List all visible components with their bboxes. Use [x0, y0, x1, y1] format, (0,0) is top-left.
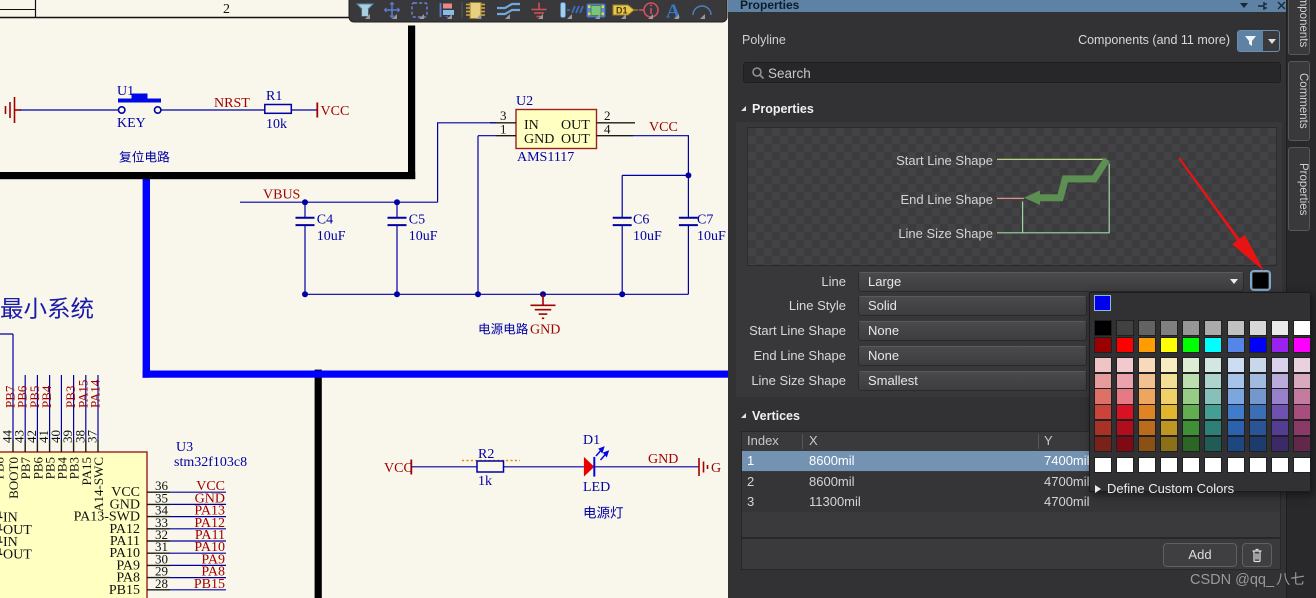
- svg-text:KEY: KEY: [117, 116, 146, 131]
- svg-text:4: 4: [604, 122, 611, 137]
- svg-text:VCC: VCC: [321, 104, 350, 119]
- svg-text:1k: 1k: [478, 474, 492, 489]
- svg-text:stm32f103c8: stm32f103c8: [174, 455, 247, 470]
- svg-text:1: 1: [500, 122, 507, 137]
- svg-text:37: 37: [85, 430, 100, 444]
- svg-text:D1: D1: [583, 433, 600, 448]
- svg-text:10uF: 10uF: [633, 229, 662, 244]
- svg-text:A: A: [666, 1, 681, 23]
- svg-text:GND: GND: [530, 323, 560, 338]
- svg-text:OUT: OUT: [561, 118, 590, 133]
- svg-text:PA14: PA14: [88, 379, 103, 408]
- svg-text:D1: D1: [616, 6, 628, 16]
- svg-text:IN: IN: [524, 118, 539, 133]
- svg-text:LED: LED: [583, 480, 610, 495]
- svg-text:C5: C5: [409, 213, 425, 228]
- svg-text:10uF: 10uF: [317, 229, 346, 244]
- svg-text:28: 28: [155, 576, 168, 591]
- svg-text:PB8: PB8: [0, 457, 7, 479]
- svg-text:C7: C7: [697, 213, 713, 228]
- svg-text:PB15: PB15: [109, 583, 140, 598]
- svg-text:OUT: OUT: [3, 547, 32, 562]
- svg-text:10uF: 10uF: [409, 229, 438, 244]
- svg-text:G: G: [711, 461, 721, 476]
- svg-text:GND: GND: [648, 452, 678, 467]
- svg-text:U1: U1: [117, 84, 134, 99]
- svg-text:PB15: PB15: [194, 577, 225, 592]
- svg-text:U2: U2: [516, 94, 533, 109]
- svg-text:AMS1117: AMS1117: [517, 150, 574, 165]
- svg-text:C6: C6: [633, 213, 649, 228]
- svg-text:GND: GND: [524, 132, 554, 147]
- svg-text:VCC: VCC: [384, 461, 413, 476]
- svg-text:R1: R1: [266, 89, 282, 104]
- svg-text:OUT: OUT: [561, 132, 590, 147]
- svg-text:U3: U3: [176, 440, 193, 455]
- svg-text:R2: R2: [478, 447, 494, 462]
- svg-text:VCC: VCC: [649, 120, 678, 135]
- svg-text:VBUS: VBUS: [263, 188, 300, 203]
- svg-text:A14-SWC: A14-SWC: [91, 457, 106, 512]
- svg-text:10k: 10k: [266, 117, 287, 132]
- svg-text:C4: C4: [317, 213, 333, 228]
- svg-text:NRST: NRST: [214, 96, 250, 111]
- svg-text:PB4: PB4: [39, 385, 54, 408]
- svg-text:2: 2: [223, 2, 230, 17]
- svg-text:10uF: 10uF: [697, 229, 726, 244]
